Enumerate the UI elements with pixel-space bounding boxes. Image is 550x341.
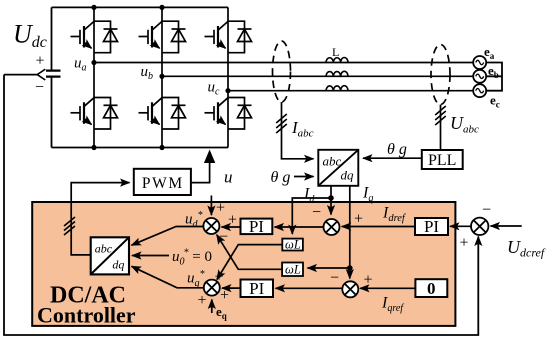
wire U_abc measurement bbox=[440, 105, 442, 151]
inductor L phase a bbox=[326, 58, 348, 63]
wire I_abc measurement bbox=[282, 102, 314, 159]
DC bus left rail bbox=[51, 7, 53, 147]
abc/dq transform U2 (modulation) bbox=[91, 237, 129, 274]
svg-text:−: − bbox=[35, 79, 44, 96]
svg-text:θ g: θ g bbox=[387, 141, 407, 158]
svg-text:−: − bbox=[312, 204, 321, 221]
transistor Q2 lower leg C bbox=[205, 98, 252, 130]
three-phase slash PWM input bbox=[64, 217, 75, 235]
omega-L block upper bbox=[282, 239, 303, 251]
three-phase slash I_abc bbox=[276, 114, 287, 133]
wire phase b bbox=[162, 75, 474, 77]
summing junction sum4 U_dc bbox=[471, 218, 488, 235]
wire u_0* to transform bbox=[132, 255, 169, 257]
svg-text:+: + bbox=[216, 200, 225, 217]
svg-text:dq: dq bbox=[112, 258, 124, 272]
wire U_dc feedback loop (left, bottom, up to sum4) bbox=[4, 75, 478, 335]
source e_c bbox=[473, 84, 486, 97]
svg-text:−: − bbox=[482, 202, 491, 219]
wire sum2 to PI1 bbox=[275, 226, 324, 228]
summing junction sum5 u_q* bbox=[204, 280, 220, 296]
wire phase a bbox=[94, 62, 474, 64]
svg-text:+: + bbox=[460, 235, 469, 252]
node u_c bbox=[225, 88, 230, 93]
node I_d branch bbox=[328, 195, 334, 201]
transistor Q4 lower leg A bbox=[71, 98, 118, 130]
omega-L block lower bbox=[282, 263, 303, 277]
wire e_q into sum5 bbox=[211, 300, 213, 314]
summing junction sum3 I_q bbox=[342, 281, 358, 297]
svg-text:−: − bbox=[330, 270, 339, 287]
PI block 1 bbox=[241, 219, 273, 235]
transistor Q6 lower leg B bbox=[139, 98, 186, 130]
wire U_dc sense tap bbox=[4, 74, 38, 76]
wire I_d output bbox=[330, 186, 332, 215]
summing junction sum1 u_d* bbox=[203, 218, 219, 234]
svg-text:dq: dq bbox=[341, 168, 355, 183]
wire inverter leg C bbox=[227, 7, 229, 147]
svg-text:+: + bbox=[228, 212, 237, 229]
node u_a bbox=[91, 60, 96, 65]
wire sum3 to PI2 bbox=[276, 287, 343, 289]
node top rail leg A bbox=[91, 5, 96, 10]
wire sum4 to PI3 bbox=[450, 225, 471, 227]
current measurement ellipse bbox=[273, 41, 291, 102]
svg-text:θ g: θ g bbox=[271, 169, 291, 186]
svg-text:abc: abc bbox=[323, 154, 342, 169]
wire bottom DC rail bbox=[52, 147, 229, 149]
summing junction sum2 I_d bbox=[324, 219, 340, 235]
three-phase slash U_abc bbox=[435, 106, 446, 125]
svg-text:+: + bbox=[220, 287, 229, 304]
wire modulation signal to PWM bbox=[71, 183, 129, 255]
transistor Q3 upper leg B bbox=[139, 21, 186, 53]
wire top DC rail bbox=[52, 6, 229, 8]
wire inverter leg A bbox=[93, 7, 95, 147]
transistor Q5 upper leg C bbox=[205, 21, 252, 53]
wire I_q output bbox=[349, 186, 351, 279]
wire source neutral bus bbox=[486, 63, 502, 91]
node top rail leg B bbox=[159, 5, 164, 10]
node bottom rail leg B bbox=[159, 145, 164, 150]
PWM block bbox=[134, 169, 191, 195]
svg-text:Controller: Controller bbox=[37, 303, 136, 328]
PI block 2 bbox=[241, 280, 274, 298]
wire 0 to sum3 bbox=[360, 287, 415, 289]
svg-text:0: 0 bbox=[427, 279, 436, 298]
wire u into sum1 bbox=[210, 196, 212, 216]
svg-text:PLL: PLL bbox=[428, 152, 456, 169]
svg-text:PWM: PWM bbox=[142, 175, 184, 192]
wire phase c bbox=[228, 90, 474, 92]
svg-text:PI: PI bbox=[249, 217, 264, 236]
svg-text:+: + bbox=[354, 211, 363, 228]
node I_q branch bbox=[347, 265, 353, 271]
wire omega-L lower to sum1 bbox=[217, 235, 282, 270]
wire I_q to omega-L lower bbox=[308, 267, 350, 269]
wire PWM to bridge bbox=[191, 160, 210, 183]
wire inverter leg B bbox=[161, 7, 163, 147]
wire u_d* to transform bbox=[132, 227, 204, 246]
wire U_dcref input bbox=[491, 225, 522, 227]
svg-text:u: u bbox=[224, 168, 233, 187]
svg-text:abc: abc bbox=[95, 242, 113, 256]
svg-text:ωL: ωL bbox=[285, 238, 301, 252]
svg-text:u0* = 0: u0* = 0 bbox=[172, 248, 212, 268]
wire PI1 to sum1 bbox=[222, 226, 241, 228]
PLL block bbox=[422, 150, 463, 169]
svg-text:+: + bbox=[198, 292, 207, 309]
PI block 3 bbox=[415, 218, 448, 235]
wire u_q* to transform bbox=[132, 266, 204, 288]
voltage measurement ellipse bbox=[431, 45, 450, 105]
svg-text:PI: PI bbox=[424, 217, 439, 236]
DC/AC controller orange box bbox=[32, 202, 455, 326]
wire I_dref bbox=[342, 226, 415, 228]
source e_a bbox=[473, 56, 486, 69]
wire omega-L upper to sum5 bbox=[217, 245, 282, 280]
zero reference block bbox=[415, 279, 447, 297]
svg-text:−: − bbox=[219, 229, 228, 246]
abc/dq transform U1 (current) bbox=[318, 150, 358, 186]
svg-text:+: + bbox=[36, 53, 45, 70]
node u_b bbox=[159, 74, 164, 79]
svg-text:L: L bbox=[332, 45, 339, 59]
transistor Q1 upper leg A bbox=[71, 21, 118, 53]
source e_b bbox=[473, 70, 486, 83]
inductor L phase b bbox=[326, 71, 348, 76]
capacitor C plates bbox=[46, 71, 61, 77]
voltage probe arrow at capacitor bbox=[37, 69, 45, 80]
svg-text:+: + bbox=[364, 272, 373, 289]
node bottom rail leg A bbox=[91, 145, 96, 150]
wire theta_g left input bbox=[294, 176, 314, 178]
inductor L phase c bbox=[326, 86, 348, 91]
svg-text:PI: PI bbox=[249, 279, 264, 298]
wire PLL theta_g output bbox=[363, 157, 422, 159]
wire PI2 to sum5 bbox=[222, 287, 241, 289]
svg-text:ωL: ωL bbox=[285, 263, 301, 277]
wire I_d to omega-L upper bbox=[292, 198, 331, 234]
